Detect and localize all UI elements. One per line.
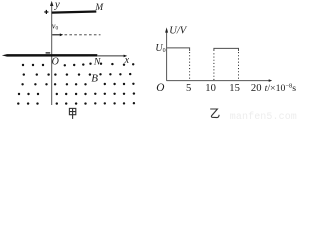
- svg-text:O: O: [156, 82, 164, 94]
- v0 velocity arrow: [52, 33, 63, 36]
- plate M: [52, 12, 97, 13]
- x-axis: [97, 55, 127, 58]
- svg-text:10: 10: [205, 83, 216, 94]
- svg-text:M: M: [94, 3, 104, 13]
- yi (figure 2) caption: [210, 109, 219, 118]
- t-axis: [167, 79, 273, 82]
- magnetic field dots (B out of page): [17, 63, 135, 105]
- y-axis: [50, 1, 53, 105]
- svg-text:t/×10−8s: t/×10−8s: [265, 83, 297, 94]
- plus sign (top plate polarity): [44, 10, 48, 14]
- svg-text:y: y: [54, 0, 60, 10]
- svg-text:20: 20: [251, 83, 262, 94]
- minus sign (bottom plate polarity): [46, 52, 51, 53]
- svg-text:U/V: U/V: [169, 26, 188, 37]
- pulse 2 falling dotted line at t=15: [238, 52, 240, 80]
- svg-text:N: N: [93, 57, 101, 68]
- U-axis (right graph): [165, 27, 168, 80]
- svg-text:manfen5.com: manfen5.com: [230, 111, 297, 121]
- pulse 1 falling dotted line at t=5: [189, 52, 191, 80]
- pulse 2 rising dotted line at t=10: [213, 52, 215, 80]
- pulse 2 top (10 to 15): [214, 48, 239, 51]
- svg-text:15: 15: [229, 83, 240, 94]
- jia (figure 1) caption: [69, 108, 75, 119]
- svg-text:5: 5: [186, 83, 191, 94]
- svg-text:B: B: [91, 73, 98, 85]
- svg-text:O: O: [52, 57, 59, 68]
- dashed trajectory line: [65, 34, 101, 36]
- bottom plate N (tapered left end): [2, 54, 98, 57]
- pulse 1 top (0 to 5): [167, 48, 190, 51]
